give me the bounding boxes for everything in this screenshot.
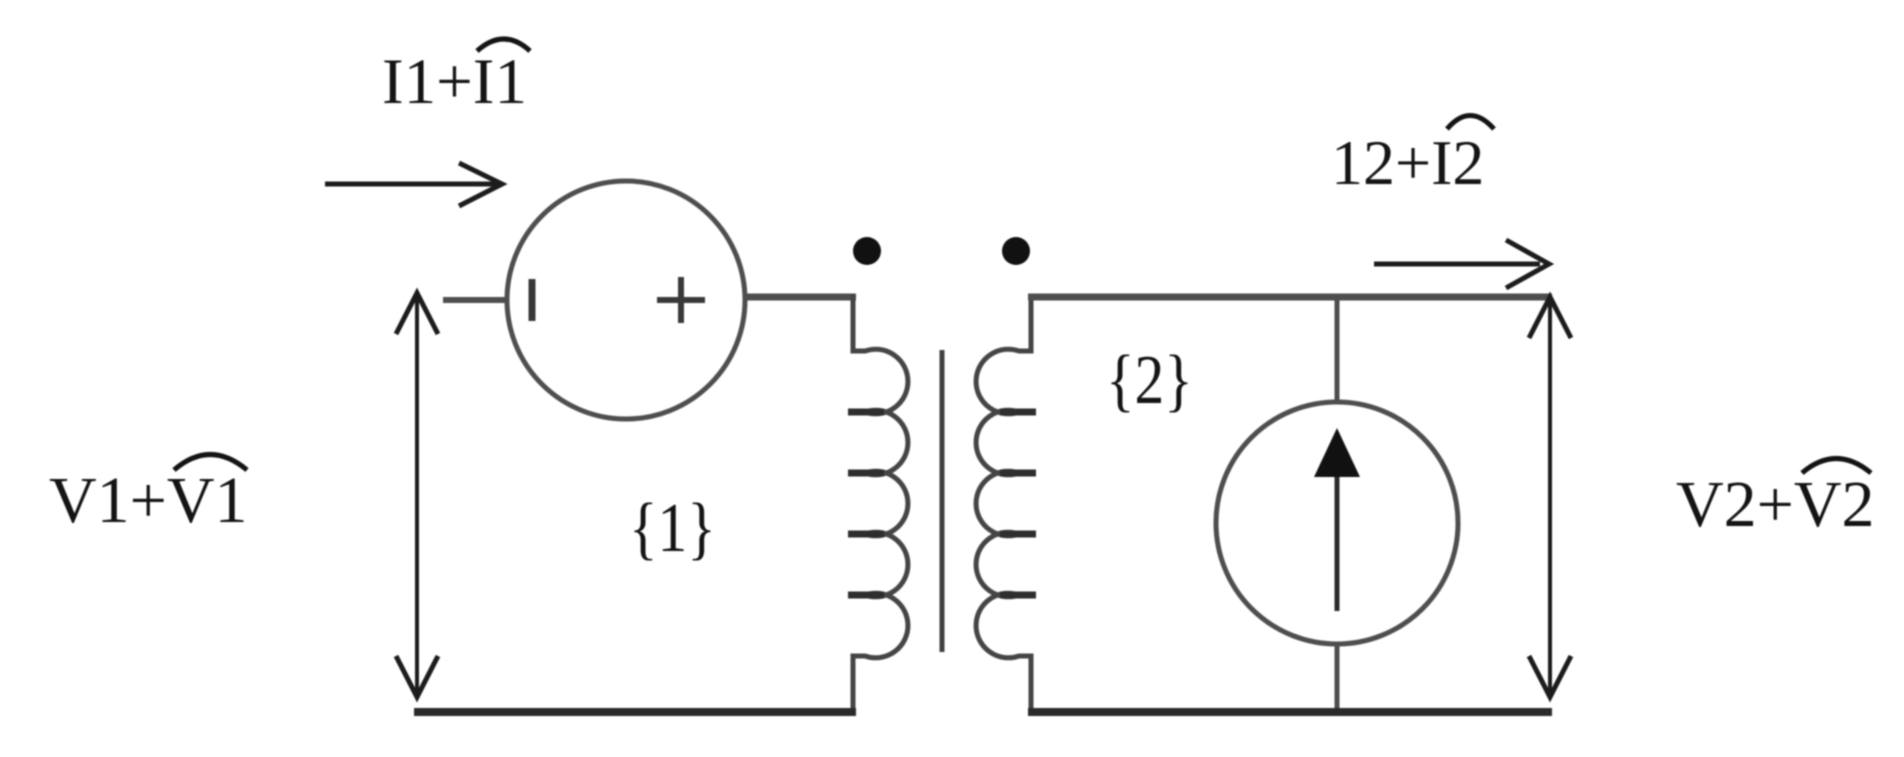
hat over V2 [1802, 459, 1871, 474]
L2 junction tick 2 [1000, 470, 1036, 477]
current source arrow [1335, 474, 1340, 611]
wire below current source [1335, 642, 1340, 716]
label V1+V1hat [49, 464, 248, 537]
wire junction down to current source [1335, 297, 1340, 404]
current arrow I1 [325, 163, 502, 206]
label {2} [1106, 342, 1193, 420]
svg-text:{2}: {2} [1106, 342, 1193, 420]
L2 junction tick 3 [1000, 531, 1036, 538]
bottom wire left [414, 708, 856, 716]
voltage arrow V1 (double-headed) [396, 293, 438, 697]
polarity dot right [1002, 237, 1030, 265]
L1 junction tick 3 [848, 531, 884, 538]
L1 junction tick 2 [848, 470, 884, 477]
L2 junction tick 1 [1000, 409, 1036, 416]
label V2+V2hat [1676, 468, 1875, 541]
L2 junction tick 4 [1000, 592, 1036, 599]
svg-text:12+I2: 12+I2 [1331, 127, 1484, 198]
hat over I2 [1447, 116, 1494, 130]
current source U2 circle [1216, 402, 1458, 644]
label {1} [629, 490, 716, 568]
wire left stub to source [443, 297, 509, 303]
inductor L1 (left winding) [853, 294, 908, 716]
hat over V1 [174, 455, 247, 471]
wire source to left coil [744, 294, 856, 301]
polarity dot left [853, 237, 881, 265]
voltage arrow V2 (double-headed) [1529, 297, 1571, 697]
transformer core [940, 350, 945, 652]
svg-text:I1+I1: I1+I1 [382, 46, 527, 118]
minus terminal bar [529, 279, 536, 321]
label 12+I2hat [1331, 127, 1484, 198]
current arrow I2 [1374, 240, 1549, 288]
inductor L2 (right winding) [976, 294, 1031, 716]
wire right coil to right edge [1028, 294, 1552, 301]
svg-text:V2+V2: V2+V2 [1676, 468, 1875, 541]
svg-text:{1}: {1} [629, 490, 716, 568]
L1 junction tick 1 [848, 409, 884, 416]
bottom wire right [1028, 708, 1552, 716]
label I1+I1hat [382, 46, 527, 118]
hat over I1 [477, 39, 530, 51]
plus sign [657, 277, 705, 323]
voltage source U1 circle [507, 181, 745, 419]
L1 junction tick 4 [848, 592, 884, 599]
svg-text:V1+V1: V1+V1 [49, 464, 248, 537]
